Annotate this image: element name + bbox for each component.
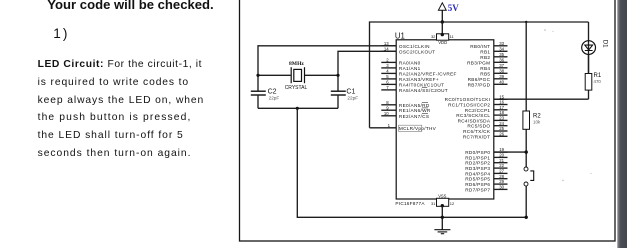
schematic frame xyxy=(240,0,616,241)
junction R2 top on rail xyxy=(525,21,527,23)
svg-text:RA3/AN3/VREF+: RA3/AN3/VREF+ xyxy=(399,77,439,82)
pin 39 RB6/PGC xyxy=(468,74,508,82)
junction button ground xyxy=(525,216,528,219)
capacitor C2 22pF xyxy=(251,89,280,101)
svg-text:VSS: VSS xyxy=(438,193,446,198)
svg-text:RE1/AN6/WR: RE1/AN6/WR xyxy=(399,108,431,113)
svg-text:RB0/INT: RB0/INT xyxy=(470,44,490,49)
svg-text:5V: 5V xyxy=(448,3,460,13)
pin 26 RC7/RX/DT xyxy=(463,131,508,139)
svg-text:31: 31 xyxy=(431,201,436,206)
svg-text:10k: 10k xyxy=(533,119,541,124)
wire LED top xyxy=(588,54,590,73)
svg-text:27: 27 xyxy=(499,169,504,174)
resistor R2 10k xyxy=(523,111,541,129)
pin 19 RD0/PSP0 xyxy=(465,147,507,155)
op chip U1 PIC16F877A body xyxy=(395,32,494,207)
pin 37 RB4 xyxy=(480,63,507,71)
svg-text:470: 470 xyxy=(594,79,602,84)
svg-text:RD1/PSP1: RD1/PSP1 xyxy=(465,155,490,160)
svg-text:20: 20 xyxy=(499,153,504,158)
pin 34 RB1 xyxy=(480,46,507,54)
wire 5V to R2 xyxy=(525,22,527,111)
svg-text:16: 16 xyxy=(499,100,504,105)
pin 35 RB2 xyxy=(480,52,507,60)
svg-text:RB5: RB5 xyxy=(480,71,490,76)
pin 36 RB3/PGM xyxy=(467,57,507,65)
svg-text:18: 18 xyxy=(499,110,504,115)
wire center tap down xyxy=(297,108,526,217)
svg-text:11: 11 xyxy=(450,34,455,39)
wire R1 bottom lead xyxy=(588,90,590,99)
svg-text:28: 28 xyxy=(499,174,504,179)
wire RD0 to button xyxy=(494,151,526,153)
wire RC0 to R1 xyxy=(494,98,589,100)
svg-text:RB1: RB1 xyxy=(480,49,490,54)
pin 18 RC3/SCK/SCL xyxy=(456,110,507,118)
page edge band xyxy=(617,0,627,248)
pin 7 RA5/AN4/SS/C2OUT xyxy=(381,85,448,93)
pin 8 RE0/AN5/RD xyxy=(381,100,430,108)
svg-text:RB3/PGM: RB3/PGM xyxy=(467,60,490,65)
svg-text:RD2/PSP2: RD2/PSP2 xyxy=(465,161,490,166)
pin 14 OSC2/CLKOUT xyxy=(381,46,435,54)
svg-text:RA0/AN0: RA0/AN0 xyxy=(399,60,421,65)
wire OSC2 to crystal right xyxy=(338,51,396,91)
pin 29 RD6/PSP6 xyxy=(465,179,507,187)
pin 33 RB0/INT xyxy=(470,41,507,49)
svg-text:RD7/PSP7: RD7/PSP7 xyxy=(465,187,490,192)
junction node on rail xyxy=(441,20,444,23)
pin 22 RD3/PSP3 xyxy=(465,163,507,171)
wire OSC1 to crystal left xyxy=(258,46,396,91)
svg-text:RE2/AN7/CS: RE2/AN7/CS xyxy=(399,114,429,119)
ground symbol xyxy=(434,230,450,234)
junction VSS rail xyxy=(441,216,444,219)
pin 6 RA4/T0CKI/C1OUT xyxy=(381,80,444,88)
svg-text:OSC1/CLKIN: OSC1/CLKIN xyxy=(399,44,430,49)
svg-text:8MHz: 8MHz xyxy=(289,61,304,67)
svg-text:MCLR/Vpp/THV: MCLR/Vpp/THV xyxy=(399,126,437,131)
svg-text:RE0/AN5/RD: RE0/AN5/RD xyxy=(399,103,430,108)
pin 4 RA2/AN2/VREF-/CVREF xyxy=(381,69,456,77)
svg-text:R2: R2 xyxy=(533,113,541,119)
resistor R1 470 xyxy=(585,73,602,90)
svg-text:30: 30 xyxy=(499,185,504,190)
svg-text:D1: D1 xyxy=(601,40,608,48)
svg-text:12: 12 xyxy=(450,201,455,206)
pin 25 RC6/TX/CK xyxy=(463,126,507,134)
svg-text:OSC2/CLKOUT: OSC2/CLKOUT xyxy=(399,49,435,54)
svg-text:22: 22 xyxy=(499,163,504,168)
svg-text:21: 21 xyxy=(499,158,504,163)
svg-text:RC3/SCK/SCL: RC3/SCK/SCL xyxy=(456,113,490,118)
pin 38 RB5 xyxy=(480,68,507,76)
pin 3 RA1/AN1 xyxy=(381,63,420,71)
capacitor C1 22pF xyxy=(331,89,358,101)
svg-text:CRYSTAL: CRYSTAL xyxy=(285,85,308,91)
pin 40 RB7/PGD xyxy=(468,79,508,87)
VSS pin box pins 31 12 xyxy=(431,193,455,207)
svg-text:VDD: VDD xyxy=(438,40,447,45)
svg-text:32: 32 xyxy=(431,34,436,39)
pin 15 RC0/T1OSO/T1CKI xyxy=(445,94,508,102)
wire crystal ground rail xyxy=(258,107,338,109)
svg-text:39: 39 xyxy=(499,74,504,79)
svg-text:36: 36 xyxy=(499,57,504,62)
svg-text:RD6/PSP6: RD6/PSP6 xyxy=(465,182,490,187)
svg-text:34: 34 xyxy=(499,46,504,51)
wire R2 to junction xyxy=(525,129,527,167)
svg-text:U1: U1 xyxy=(395,32,405,41)
svg-text:29: 29 xyxy=(499,179,504,184)
svg-text:37: 37 xyxy=(499,63,504,68)
wire C1 bottom xyxy=(337,95,339,108)
pin 17 RC2/CCP1 xyxy=(465,105,508,113)
svg-text:33: 33 xyxy=(499,41,504,46)
svg-text:24: 24 xyxy=(499,121,504,126)
pin 23 RC4/SDI/SDA xyxy=(458,116,508,124)
svg-text:26: 26 xyxy=(499,131,504,136)
pin 9 RE1/AN6/WR xyxy=(381,105,431,113)
pin 1 MCLR/Vpp/THV xyxy=(370,123,437,131)
wire C2 bottom xyxy=(257,95,259,108)
svg-text:RC6/TX/CK: RC6/TX/CK xyxy=(463,129,491,134)
svg-text:PIC16F877A: PIC16F877A xyxy=(395,201,425,206)
crystal X1 8MHz xyxy=(258,61,338,91)
svg-text:RD0/PSP0: RD0/PSP0 xyxy=(465,150,490,155)
svg-text:35: 35 xyxy=(499,52,504,57)
pin 28 RD5/PSP5 xyxy=(465,174,507,182)
svg-text:RD3/PSP3: RD3/PSP3 xyxy=(465,166,490,171)
svg-text:RC0/T1OSO/T1CKI: RC0/T1OSO/T1CKI xyxy=(445,97,491,102)
svg-text:40: 40 xyxy=(499,79,504,84)
wire 5V rail xyxy=(370,22,589,128)
wire R1 to LED xyxy=(588,54,590,73)
svg-text:22pF: 22pF xyxy=(269,95,280,100)
svg-text:RC4/SDI/SDA: RC4/SDI/SDA xyxy=(458,118,491,123)
svg-text:RB6/PGC: RB6/PGC xyxy=(468,77,491,82)
pin 21 RD2/PSP2 xyxy=(465,158,507,166)
svg-text:RC1/T1OSI/CCP2: RC1/T1OSI/CCP2 xyxy=(448,103,490,108)
wire VDD drop xyxy=(441,22,443,34)
svg-text:R1: R1 xyxy=(594,73,602,79)
pin 2 RA0/AN0 xyxy=(381,58,420,66)
junction crystal right xyxy=(336,74,339,77)
wire button bottom xyxy=(525,186,527,217)
svg-text:RA5/AN4/SS/C2OUT: RA5/AN4/SS/C2OUT xyxy=(399,88,448,93)
svg-text:RC5/SDO: RC5/SDO xyxy=(467,124,490,129)
svg-text:22pF: 22pF xyxy=(347,95,358,100)
svg-text:RC7/RX/DT: RC7/RX/DT xyxy=(463,134,490,139)
svg-text:RB7/PGD: RB7/PGD xyxy=(468,82,491,87)
svg-text:23: 23 xyxy=(499,116,504,121)
push button SW xyxy=(524,167,534,186)
svg-text:RC2/CCP1: RC2/CCP1 xyxy=(465,108,491,113)
svg-text:RB4: RB4 xyxy=(480,66,490,71)
pin 30 RD7/PSP7 xyxy=(465,185,507,193)
svg-text:RD4/PSP4: RD4/PSP4 xyxy=(465,171,490,176)
pin 5 RA3/AN3/VREF+ xyxy=(381,74,439,82)
svg-text:RA4/T0CKI/C1OUT: RA4/T0CKI/C1OUT xyxy=(399,82,444,87)
power 5V xyxy=(438,3,459,22)
svg-text:RA1/AN1: RA1/AN1 xyxy=(399,66,421,71)
LED D1 xyxy=(582,22,609,54)
junction RD0 node xyxy=(525,150,528,153)
junction crystal center tap xyxy=(296,107,299,110)
svg-text:RD5/PSP5: RD5/PSP5 xyxy=(465,177,490,182)
wire VSS to ground xyxy=(441,206,443,230)
svg-text:10: 10 xyxy=(384,111,389,116)
pin 24 RC5/SDO xyxy=(467,121,507,129)
pin 27 RD4/PSP4 xyxy=(465,169,507,177)
pin 16 RC1/T1OSI/CCP2 xyxy=(448,100,507,108)
svg-text:17: 17 xyxy=(499,105,504,110)
svg-text:RB2: RB2 xyxy=(480,55,490,60)
dust specks xyxy=(544,29,591,181)
svg-text:38: 38 xyxy=(499,68,504,73)
VDD pin box pins 32 11 xyxy=(431,33,455,45)
pin 10 RE2/AN7/CS xyxy=(381,111,429,119)
pin 20 RD1/PSP1 xyxy=(465,153,507,161)
pin 13 OSC1/CLKIN xyxy=(381,41,429,49)
junction crystal left xyxy=(256,74,259,77)
svg-text:RA2/AN2/VREF-/CVREF: RA2/AN2/VREF-/CVREF xyxy=(399,71,457,76)
svg-text:25: 25 xyxy=(499,126,504,131)
